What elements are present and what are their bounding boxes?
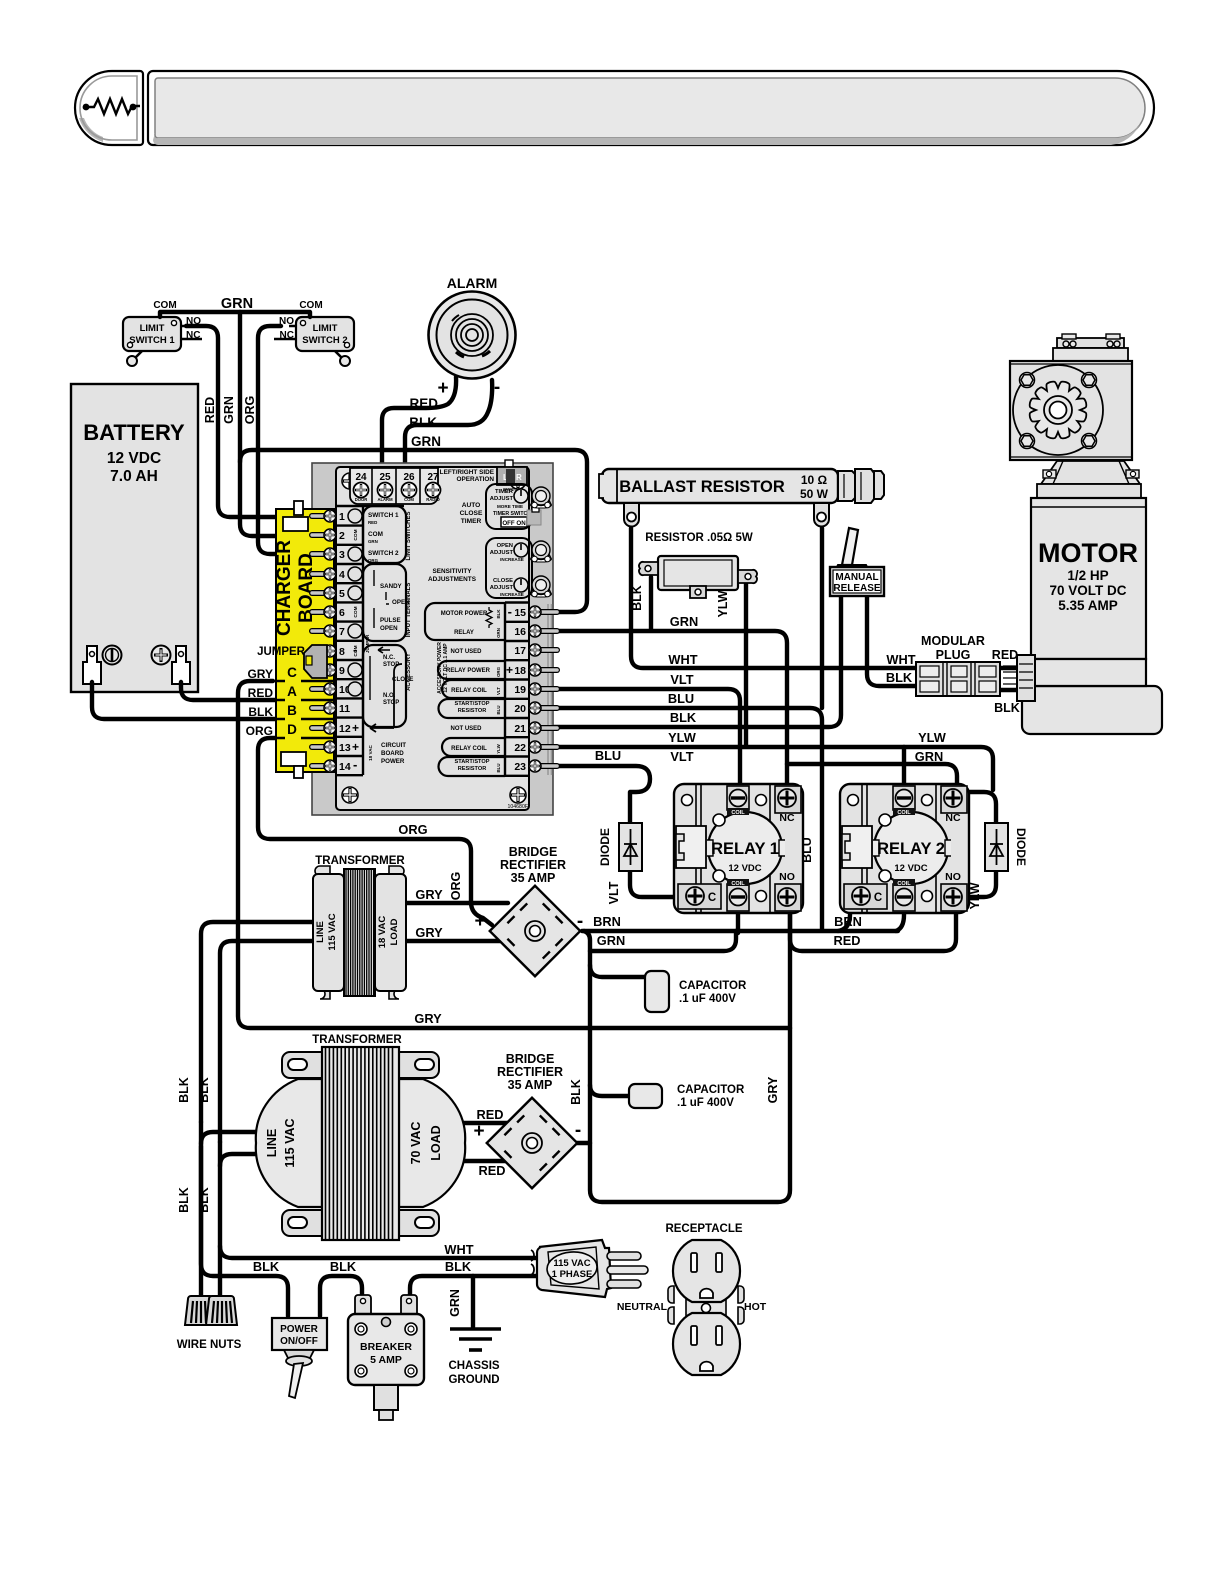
svg-text:BLK: BLK bbox=[197, 1077, 211, 1103]
svg-text:1: 1 bbox=[339, 511, 345, 523]
svg-text:C: C bbox=[874, 892, 882, 904]
wire GRN bus to terminal 2 bbox=[240, 312, 284, 536]
wire modular plug to motor RED bbox=[1000, 666, 1017, 670]
svg-text:BLK: BLK bbox=[253, 1259, 280, 1274]
svg-text:12: 12 bbox=[339, 723, 351, 735]
svg-text:COIL: COIL bbox=[731, 881, 745, 887]
svg-text:YLW: YLW bbox=[496, 743, 501, 753]
svg-text:MORE TIME: MORE TIME bbox=[497, 504, 523, 509]
svg-text:ORG: ORG bbox=[449, 872, 463, 900]
svg-text:JUMPER: JUMPER bbox=[365, 634, 370, 653]
svg-text:NO: NO bbox=[945, 871, 961, 883]
svg-text:NEUTRAL: NEUTRAL bbox=[617, 1301, 668, 1313]
svg-text:RECTIFIER: RECTIFIER bbox=[500, 858, 566, 872]
svg-text:16: 16 bbox=[514, 626, 526, 638]
svg-text:VLT: VLT bbox=[670, 749, 693, 764]
wire VLT terminal 23 to diode 1 bbox=[552, 766, 650, 823]
svg-text:INCREASE: INCREASE bbox=[500, 557, 524, 562]
svg-text:GRN: GRN bbox=[915, 749, 943, 764]
svg-text:-: - bbox=[575, 1120, 581, 1141]
bridge rectifier at 532,1143 bbox=[487, 1098, 578, 1189]
motor bracket trapezoid bbox=[1041, 461, 1140, 484]
svg-text:GRN: GRN bbox=[222, 396, 236, 424]
svg-text:RADIO: RADIO bbox=[426, 497, 440, 502]
svg-text:OFF ON: OFF ON bbox=[502, 520, 526, 527]
wire BRN bridge 1 minus to relay coil bottoms bbox=[582, 929, 898, 933]
svg-text:ORG: ORG bbox=[496, 666, 501, 677]
sensitivity adjustments dials bbox=[486, 538, 532, 598]
svg-text:RED: RED bbox=[248, 686, 274, 700]
wire diode 1 to relay 1 C bbox=[630, 871, 676, 897]
svg-text:ACCESSORY: ACCESSORY bbox=[406, 653, 412, 691]
svg-text:DIODE: DIODE bbox=[598, 828, 612, 866]
resistor .05 ohm body bbox=[639, 556, 757, 598]
svg-text:ALARM: ALARM bbox=[377, 497, 393, 502]
svg-text:+: + bbox=[474, 911, 485, 932]
svg-text:SWITCH 2: SWITCH 2 bbox=[302, 335, 347, 346]
wire RED battery positive to pin A bbox=[181, 682, 275, 700]
svg-text:18 VAC: 18 VAC bbox=[368, 744, 373, 760]
wire GRN cord to chassis ground bbox=[471, 1276, 475, 1327]
svg-text:RELAY 2: RELAY 2 bbox=[877, 840, 945, 858]
battery screw phillips bbox=[152, 646, 171, 665]
svg-text:ON/OFF: ON/OFF bbox=[280, 1336, 318, 1347]
wire capacitor 2 elbow bbox=[590, 1085, 631, 1096]
svg-text:70 VAC: 70 VAC bbox=[409, 1122, 423, 1165]
svg-text:ORG: ORG bbox=[368, 558, 379, 563]
wire BLK breaker to cord plug bbox=[410, 1276, 536, 1300]
svg-text:VLT: VLT bbox=[607, 881, 621, 904]
svg-text:SWITCH 1: SWITCH 1 bbox=[368, 512, 399, 519]
svg-text:10 Ω: 10 Ω bbox=[801, 473, 828, 487]
svg-text:BLU: BLU bbox=[595, 748, 621, 763]
diode at x=985 bbox=[985, 823, 1008, 871]
svg-text:OPEN: OPEN bbox=[497, 543, 513, 549]
wire BLK battery negative to pin B bbox=[92, 682, 275, 719]
svg-text:5.35 AMP: 5.35 AMP bbox=[1058, 598, 1118, 613]
wire capacitor 1 elbow bbox=[590, 965, 646, 977]
svg-text:NOT USED: NOT USED bbox=[450, 726, 482, 732]
charger board yellow strip bbox=[274, 501, 334, 778]
svg-text:.1 uF 400V: .1 uF 400V bbox=[677, 1097, 734, 1109]
svg-text:BLK: BLK bbox=[496, 609, 501, 619]
svg-text:RELAY COIL: RELAY COIL bbox=[451, 688, 487, 694]
svg-text:BRN: BRN bbox=[593, 914, 621, 929]
relay 1 C terminal bbox=[678, 884, 721, 909]
svg-text:GROUND: GROUND bbox=[448, 1374, 499, 1386]
svg-text:35 AMP: 35 AMP bbox=[508, 1078, 553, 1092]
svg-text:BLK: BLK bbox=[248, 705, 273, 719]
wire BLU terminal 20 down between relays bbox=[552, 708, 822, 929]
motor body bbox=[1031, 498, 1146, 659]
wire RED limit switch 1 NO to terminal 1 bbox=[186, 326, 284, 517]
accessory bracket bbox=[363, 645, 406, 727]
svg-text:BLK: BLK bbox=[330, 1259, 357, 1274]
wire RED relay 1 NO to relay 2 NO bbox=[790, 911, 956, 951]
svg-text:CLOSE: CLOSE bbox=[493, 578, 513, 584]
relay 2 C terminal bbox=[844, 884, 887, 909]
svg-text:RESISTOR: RESISTOR bbox=[458, 708, 487, 714]
svg-text:CAPACITOR: CAPACITOR bbox=[679, 980, 747, 992]
relay 2 bbox=[840, 784, 969, 913]
115 VAC power cord plug bbox=[531, 1240, 648, 1297]
motor mount plate bbox=[1037, 484, 1141, 498]
sensitivity bracket bbox=[363, 564, 406, 641]
wire BLK manual release right to modular plug bbox=[867, 596, 916, 686]
svg-text:BRIDGE: BRIDGE bbox=[506, 1052, 555, 1066]
svg-text:GRY: GRY bbox=[415, 925, 443, 940]
svg-text:GRY: GRY bbox=[415, 887, 443, 902]
svg-text:RED: RED bbox=[476, 1107, 503, 1122]
wire RED transformer 2 to bridge 2 bbox=[463, 1121, 512, 1125]
svg-text:115 VAC: 115 VAC bbox=[327, 913, 338, 950]
svg-text:BLK: BLK bbox=[177, 1077, 191, 1103]
svg-text:INCREASE: INCREASE bbox=[500, 592, 524, 597]
svg-text:23: 23 bbox=[514, 761, 526, 773]
svg-text:COM: COM bbox=[353, 645, 359, 656]
wire RED transformer 2 lower to bridge 2 bbox=[463, 1159, 508, 1163]
motor base bbox=[1022, 686, 1162, 734]
svg-text:COM: COM bbox=[353, 529, 359, 540]
svg-text:BLU: BLU bbox=[496, 763, 501, 772]
wire bridge 2 minus stub bbox=[574, 1141, 590, 1145]
svg-text:BLU: BLU bbox=[496, 705, 501, 714]
battery terminal lug left bbox=[83, 646, 101, 684]
wire GRY pin C riser bbox=[238, 681, 790, 1028]
svg-text:BLK: BLK bbox=[994, 701, 1020, 715]
svg-text:BLK: BLK bbox=[886, 670, 913, 685]
svg-text:NOT USED: NOT USED bbox=[450, 649, 482, 655]
wire WHT ballast left tab to modular plug bbox=[631, 528, 916, 668]
top terminal block 24-27 bbox=[350, 468, 438, 504]
svg-text:17: 17 bbox=[514, 645, 526, 657]
svg-text:CIRCUIT: CIRCUIT bbox=[381, 742, 406, 749]
svg-text:RELAY COIL: RELAY COIL bbox=[451, 746, 487, 752]
svg-text:ORG: ORG bbox=[243, 396, 257, 424]
svg-text:NC: NC bbox=[280, 330, 294, 341]
svg-text:ORG: ORG bbox=[246, 724, 273, 738]
svg-text:OPEN: OPEN bbox=[380, 625, 398, 632]
svg-text:-: - bbox=[577, 911, 583, 932]
relay 1 coil terminal bottom bbox=[727, 884, 749, 911]
svg-text:27: 27 bbox=[427, 472, 439, 483]
wire WHT bus bottom to cord plug bbox=[220, 1246, 536, 1258]
svg-text:NC: NC bbox=[779, 812, 795, 824]
svg-text:115 VAC: 115 VAC bbox=[553, 1258, 590, 1269]
svg-text:RED: RED bbox=[992, 648, 1018, 662]
svg-text:RED: RED bbox=[478, 1163, 505, 1178]
wire GRY main riser relay 1 NO down to bottom bus bbox=[584, 911, 790, 1202]
rotated wire labels bbox=[177, 585, 1028, 1317]
breaker 5 amp bbox=[348, 1295, 424, 1420]
svg-text:19: 19 bbox=[514, 684, 526, 696]
wire left rail BLK to wire nut 1 bbox=[201, 1122, 288, 1316]
svg-text:MOTOR POWER: MOTOR POWER bbox=[441, 611, 488, 617]
svg-text:VLT: VLT bbox=[670, 672, 693, 687]
svg-text:WIRE NUTS: WIRE NUTS bbox=[177, 1339, 242, 1351]
wire YLW branch to relay 2 coil top bbox=[902, 747, 906, 786]
svg-text:CHASSIS: CHASSIS bbox=[448, 1360, 499, 1372]
wire ORG pin D to bridge 1 plus bbox=[258, 738, 492, 925]
svg-text:7: 7 bbox=[339, 626, 345, 638]
svg-text:COIL: COIL bbox=[897, 810, 911, 816]
svg-text:SANDY: SANDY bbox=[380, 583, 403, 590]
svg-text:24: 24 bbox=[355, 472, 367, 483]
wire BLK alarm minus to terminal 26 bbox=[405, 380, 492, 482]
svg-text:13: 13 bbox=[339, 742, 351, 754]
svg-text:3: 3 bbox=[339, 549, 345, 561]
svg-text:LOAD: LOAD bbox=[429, 1125, 443, 1160]
power on/off switch bbox=[272, 1318, 327, 1398]
wire diode 2 bottom to relay 2 NO bbox=[970, 871, 996, 897]
svg-text:LIMIT SWITCHES: LIMIT SWITCHES bbox=[406, 512, 412, 561]
wire GRN alarm net horizontal to terminal 15 riser bbox=[240, 450, 587, 612]
wire modular plug to motor BLK bbox=[1000, 688, 1017, 692]
svg-text:ORG: ORG bbox=[398, 822, 427, 837]
wire YLW terminal 22 to relay 2 bbox=[552, 747, 993, 790]
svg-text:BATTERY: BATTERY bbox=[83, 420, 185, 445]
svg-text:NO: NO bbox=[779, 871, 795, 883]
wire transformer 1 line 2 to rail 2 bbox=[220, 941, 313, 1142]
svg-text:9: 9 bbox=[339, 665, 345, 677]
relay 1 NC terminal bbox=[775, 786, 801, 813]
svg-text:YLW: YLW bbox=[716, 590, 730, 617]
board outer bbox=[312, 463, 553, 815]
wire RED alarm plus to terminal 25 bbox=[382, 377, 456, 482]
relay 2 coil terminal top bbox=[893, 786, 915, 810]
svg-text:COM: COM bbox=[299, 300, 322, 311]
wire BLK power switch to breaker bbox=[320, 1276, 362, 1316]
svg-text:C: C bbox=[708, 892, 716, 904]
svg-text:TIMER SWITCH: TIMER SWITCH bbox=[493, 511, 531, 517]
battery 12VDC 7.0AH bbox=[71, 384, 198, 692]
svg-text:BLK: BLK bbox=[197, 1187, 211, 1213]
limit switch 1 bbox=[123, 317, 202, 366]
svg-text:LIMIT: LIMIT bbox=[140, 323, 165, 334]
chassis ground symbol bbox=[450, 1329, 501, 1350]
svg-text:COM: COM bbox=[153, 300, 176, 311]
battery screw slotted bbox=[103, 646, 122, 665]
transformer 1 bbox=[313, 866, 406, 999]
svg-text:+: + bbox=[437, 378, 448, 399]
svg-text:50 W: 50 W bbox=[800, 487, 829, 501]
motor top cap bbox=[1057, 338, 1124, 348]
svg-text:1 PHASE: 1 PHASE bbox=[552, 1269, 593, 1280]
wire rail 2 WHT branch bbox=[218, 1142, 222, 1296]
svg-text:INPUT TERMINALS: INPUT TERMINALS bbox=[406, 583, 412, 638]
svg-text:DOOR: DOOR bbox=[355, 497, 368, 502]
relay 1 bbox=[674, 784, 803, 913]
wire BLU ballast right tab down bbox=[820, 528, 824, 708]
wire nut 1 bbox=[185, 1296, 216, 1325]
wire GRN bus below bridge 1 to coil junction bbox=[590, 931, 736, 951]
svg-text:4: 4 bbox=[339, 569, 345, 581]
svg-text:COM: COM bbox=[353, 606, 359, 617]
wire GRY transformer 1 to bridge 1 bbox=[406, 901, 508, 905]
wire GRY transformer 1 lower to bridge 1 bbox=[406, 939, 502, 943]
svg-text:12 VDC: 12 VDC bbox=[728, 863, 761, 874]
svg-text:BLK: BLK bbox=[445, 1259, 472, 1274]
receptacle bbox=[668, 1240, 744, 1375]
svg-text:START/STOP: START/STOP bbox=[455, 701, 490, 707]
manual release switch bbox=[830, 528, 884, 596]
svg-text:GRN: GRN bbox=[221, 296, 253, 312]
svg-text:RELAY 1: RELAY 1 bbox=[711, 840, 779, 858]
svg-text:BLK: BLK bbox=[670, 710, 697, 725]
svg-text:WHT: WHT bbox=[668, 652, 697, 667]
relay 2 coil terminal bottom bbox=[893, 884, 915, 911]
svg-text:GRN: GRN bbox=[411, 434, 441, 449]
svg-text:RESISTOR: RESISTOR bbox=[458, 766, 487, 772]
svg-text:ADJUST: ADJUST bbox=[490, 585, 514, 591]
svg-text:RECEPTACLE: RECEPTACLE bbox=[665, 1223, 742, 1235]
jumper plug connector bbox=[304, 645, 327, 678]
svg-text:TIMER: TIMER bbox=[495, 489, 514, 495]
ballast right mounting tab bbox=[814, 503, 829, 527]
relay 2 NC terminal bbox=[941, 786, 967, 813]
wire nut 2 bbox=[206, 1296, 237, 1325]
svg-text:D: D bbox=[287, 722, 297, 737]
svg-text:26: 26 bbox=[403, 472, 415, 483]
svg-text:GRN: GRN bbox=[496, 628, 501, 638]
wire BRN rise to relay 2 C bbox=[838, 911, 850, 931]
svg-text:SENSITIVITY: SENSITIVITY bbox=[432, 568, 472, 575]
svg-text:BOARD: BOARD bbox=[381, 750, 404, 757]
alarm sounder bbox=[429, 275, 516, 399]
svg-text:COM: COM bbox=[404, 497, 414, 502]
svg-text:OPERATION: OPERATION bbox=[456, 476, 494, 483]
motor terminal connector bbox=[1017, 655, 1035, 701]
svg-text:35 AMP: 35 AMP bbox=[511, 871, 556, 885]
svg-text:YLW: YLW bbox=[668, 730, 697, 745]
svg-text:12 VDC: 12 VDC bbox=[107, 450, 161, 467]
svg-text:RECTIFIER: RECTIFIER bbox=[497, 1065, 563, 1079]
svg-text:70 VOLT DC: 70 VOLT DC bbox=[1049, 583, 1126, 598]
svg-text:POWER: POWER bbox=[381, 758, 405, 765]
svg-text:BRIDGE: BRIDGE bbox=[509, 845, 558, 859]
svg-text:LINE: LINE bbox=[315, 921, 326, 943]
pin labels GRY C / RED A / BLK B / ORG D bbox=[246, 667, 274, 738]
svg-text:BLK: BLK bbox=[409, 415, 437, 430]
svg-text:6: 6 bbox=[339, 607, 345, 619]
wire relay 1 coil bottom drop bbox=[736, 908, 740, 933]
svg-text:STOP: STOP bbox=[383, 700, 399, 706]
svg-text:GRY: GRY bbox=[414, 1011, 442, 1026]
svg-text:22: 22 bbox=[514, 742, 526, 754]
svg-text:AUTO: AUTO bbox=[462, 502, 481, 509]
svg-text:.1 uF 400V: .1 uF 400V bbox=[679, 993, 736, 1005]
svg-text:-: - bbox=[508, 604, 512, 619]
svg-text:CHARGER: CHARGER bbox=[274, 540, 295, 636]
wire GRN terminal 16 to relay 1 NC bbox=[552, 631, 787, 786]
svg-text:NC: NC bbox=[186, 330, 200, 341]
svg-text:TRANSFORMER: TRANSFORMER bbox=[312, 1034, 402, 1046]
svg-text:+: + bbox=[506, 663, 513, 677]
wire GRN bus limit switches COM bbox=[160, 312, 310, 317]
svg-text:COM: COM bbox=[368, 531, 383, 538]
svg-text:5 AMP: 5 AMP bbox=[370, 1354, 402, 1366]
svg-text:11: 11 bbox=[339, 703, 350, 715]
pin wires A-D bbox=[275, 681, 333, 738]
svg-text:12 VDC: 12 VDC bbox=[894, 863, 927, 874]
svg-text:R: R bbox=[516, 473, 522, 482]
svg-text:GRN: GRN bbox=[670, 614, 698, 629]
svg-text:BLK: BLK bbox=[630, 585, 644, 611]
svg-text:SWITCH 1: SWITCH 1 bbox=[129, 335, 175, 346]
svg-text:+: + bbox=[473, 1121, 484, 1142]
svg-text:CLOSE: CLOSE bbox=[460, 510, 483, 517]
svg-text:PLUG: PLUG bbox=[936, 648, 971, 662]
svg-text:WHT: WHT bbox=[886, 652, 915, 667]
ballast resistor bbox=[599, 469, 884, 527]
svg-text:SWITCH 2: SWITCH 2 bbox=[368, 550, 399, 557]
diode at x=619 bbox=[619, 823, 642, 871]
svg-text:LEFT/RIGHT SIDE: LEFT/RIGHT SIDE bbox=[440, 469, 495, 476]
svg-text:-: - bbox=[353, 757, 357, 772]
svg-text:20: 20 bbox=[514, 703, 526, 715]
wire ORG limit switch 2 NO to terminal 3 bbox=[258, 326, 284, 554]
svg-text:RELAY POWER: RELAY POWER bbox=[446, 668, 491, 674]
svg-text:5: 5 bbox=[339, 588, 345, 600]
wire diode 2 top to relay 2 bbox=[970, 792, 996, 823]
transformer 2 bbox=[256, 1047, 465, 1240]
svg-text:RED: RED bbox=[833, 933, 860, 948]
svg-text:DIODE: DIODE bbox=[1014, 828, 1028, 866]
svg-text:15: 15 bbox=[514, 607, 526, 619]
svg-text:25: 25 bbox=[379, 472, 391, 483]
svg-text:2: 2 bbox=[339, 530, 345, 542]
wire GRN relay 1 NC riser to relay 2 NC bbox=[787, 764, 957, 786]
svg-text:BRN: BRN bbox=[834, 914, 862, 929]
svg-text:CAPACITOR: CAPACITOR bbox=[677, 1084, 745, 1096]
wire VLT terminal 19 to relay 1 coil top bbox=[552, 689, 740, 786]
limit switches bracket bbox=[363, 506, 406, 563]
svg-text:+: + bbox=[352, 740, 359, 754]
svg-text:ALARM: ALARM bbox=[447, 275, 498, 291]
svg-text:7.0 AH: 7.0 AH bbox=[110, 468, 158, 485]
motor gearbox bbox=[1010, 361, 1132, 460]
svg-text:BALLAST RESISTOR: BALLAST RESISTOR bbox=[619, 478, 785, 496]
svg-text:LOAD: LOAD bbox=[389, 918, 400, 945]
svg-text:ADJUSTMENTS: ADJUSTMENTS bbox=[428, 576, 477, 583]
ballast left mounting tab bbox=[624, 503, 639, 527]
wire BLK resistor tab joins GRN bus bbox=[649, 577, 653, 629]
mid wire labels bbox=[253, 614, 947, 1274]
svg-text:B: B bbox=[287, 703, 297, 718]
modular plug bbox=[916, 662, 1000, 696]
svg-text:MOTOR: MOTOR bbox=[1038, 538, 1138, 568]
svg-text:+: + bbox=[352, 721, 359, 735]
svg-text:GRN: GRN bbox=[597, 933, 625, 948]
capacitor 2 bbox=[629, 1084, 662, 1108]
svg-text:PULSE: PULSE bbox=[380, 617, 401, 624]
svg-text:START/STOP: START/STOP bbox=[455, 759, 490, 765]
battery terminal lug right bbox=[172, 646, 190, 684]
svg-text:RESISTOR .05Ω 5W: RESISTOR .05Ω 5W bbox=[645, 532, 753, 544]
wire transformer 2 line 2 to rail bbox=[220, 1154, 256, 1166]
svg-text:RED: RED bbox=[203, 397, 217, 423]
relay 2 NO terminal bbox=[941, 884, 967, 911]
svg-text:HOT: HOT bbox=[744, 1301, 767, 1313]
svg-text:1/2 HP: 1/2 HP bbox=[1067, 568, 1108, 583]
svg-text:RED: RED bbox=[368, 520, 377, 525]
header banner main bar bbox=[148, 71, 1154, 145]
svg-text:18 VAC: 18 VAC bbox=[377, 916, 388, 949]
svg-text:ADJUST: ADJUST bbox=[490, 550, 514, 556]
svg-text:MANUAL: MANUAL bbox=[835, 572, 878, 583]
svg-text:GRY: GRY bbox=[766, 1076, 780, 1103]
svg-text:TIMER: TIMER bbox=[461, 518, 482, 525]
